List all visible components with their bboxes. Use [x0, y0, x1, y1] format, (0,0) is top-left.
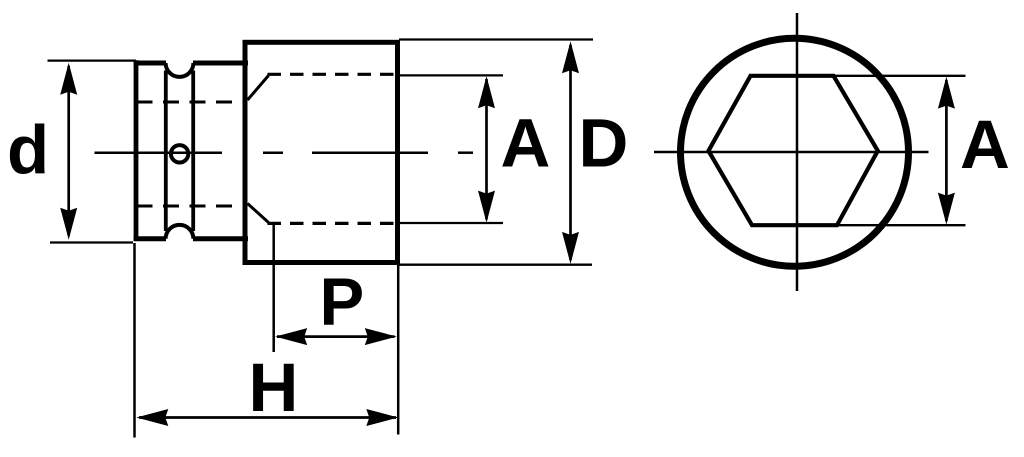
dim d bottom extension: [50, 241, 133, 243]
drive top groove notch arc: [166, 63, 194, 77]
groove right line: [191, 71, 195, 232]
svg-text:H: H: [249, 349, 299, 426]
dim A side arrow line: [478, 76, 495, 222]
center line (side view): [95, 151, 474, 154]
dim D bottom extension: [397, 264, 592, 266]
dim H left extension: [133, 243, 136, 438]
drive pin hole: [171, 145, 188, 162]
groove left line: [164, 71, 168, 232]
front view horizontal centerline: [654, 151, 929, 154]
drive bottom groove notch arc: [166, 225, 194, 239]
bore chamfer bottom: [248, 204, 269, 223]
hex bore hidden line top: [268, 73, 398, 76]
hex bore outline: [709, 76, 878, 225]
svg-text:A: A: [960, 106, 1010, 183]
drive hidden square line top: [137, 101, 246, 104]
dim D arrow line: [562, 41, 579, 264]
svg-text:P: P: [320, 265, 365, 340]
dim P arrow line: [275, 328, 397, 345]
dim P left extension: [272, 223, 275, 353]
dim d top extension: [48, 59, 137, 61]
body right edge extension below body: [397, 264, 400, 435]
bore chamfer top: [248, 76, 269, 101]
dim D top extension: [399, 38, 593, 40]
dim A front arrow line: [938, 77, 955, 225]
dim d arrow line: [60, 63, 77, 240]
svg-text:D: D: [579, 105, 629, 182]
drive hidden square line bottom: [137, 205, 246, 208]
socket outer circle: [681, 38, 909, 266]
dim A front extension top: [830, 75, 966, 77]
socket body outline: [245, 42, 398, 262]
dim H arrow line: [136, 409, 398, 426]
drive bottom edge: [134, 236, 248, 241]
square drive left face: [134, 60, 139, 241]
front view vertical centerline: [796, 13, 799, 291]
hex bore hidden line bottom: [268, 222, 398, 225]
drive top edge: [134, 61, 248, 66]
dim A side extension bottom: [397, 222, 503, 224]
svg-text:A: A: [501, 105, 551, 182]
dim A side extension top: [397, 74, 503, 76]
svg-text:d: d: [7, 112, 49, 189]
dim A front extension bottom: [834, 224, 966, 226]
